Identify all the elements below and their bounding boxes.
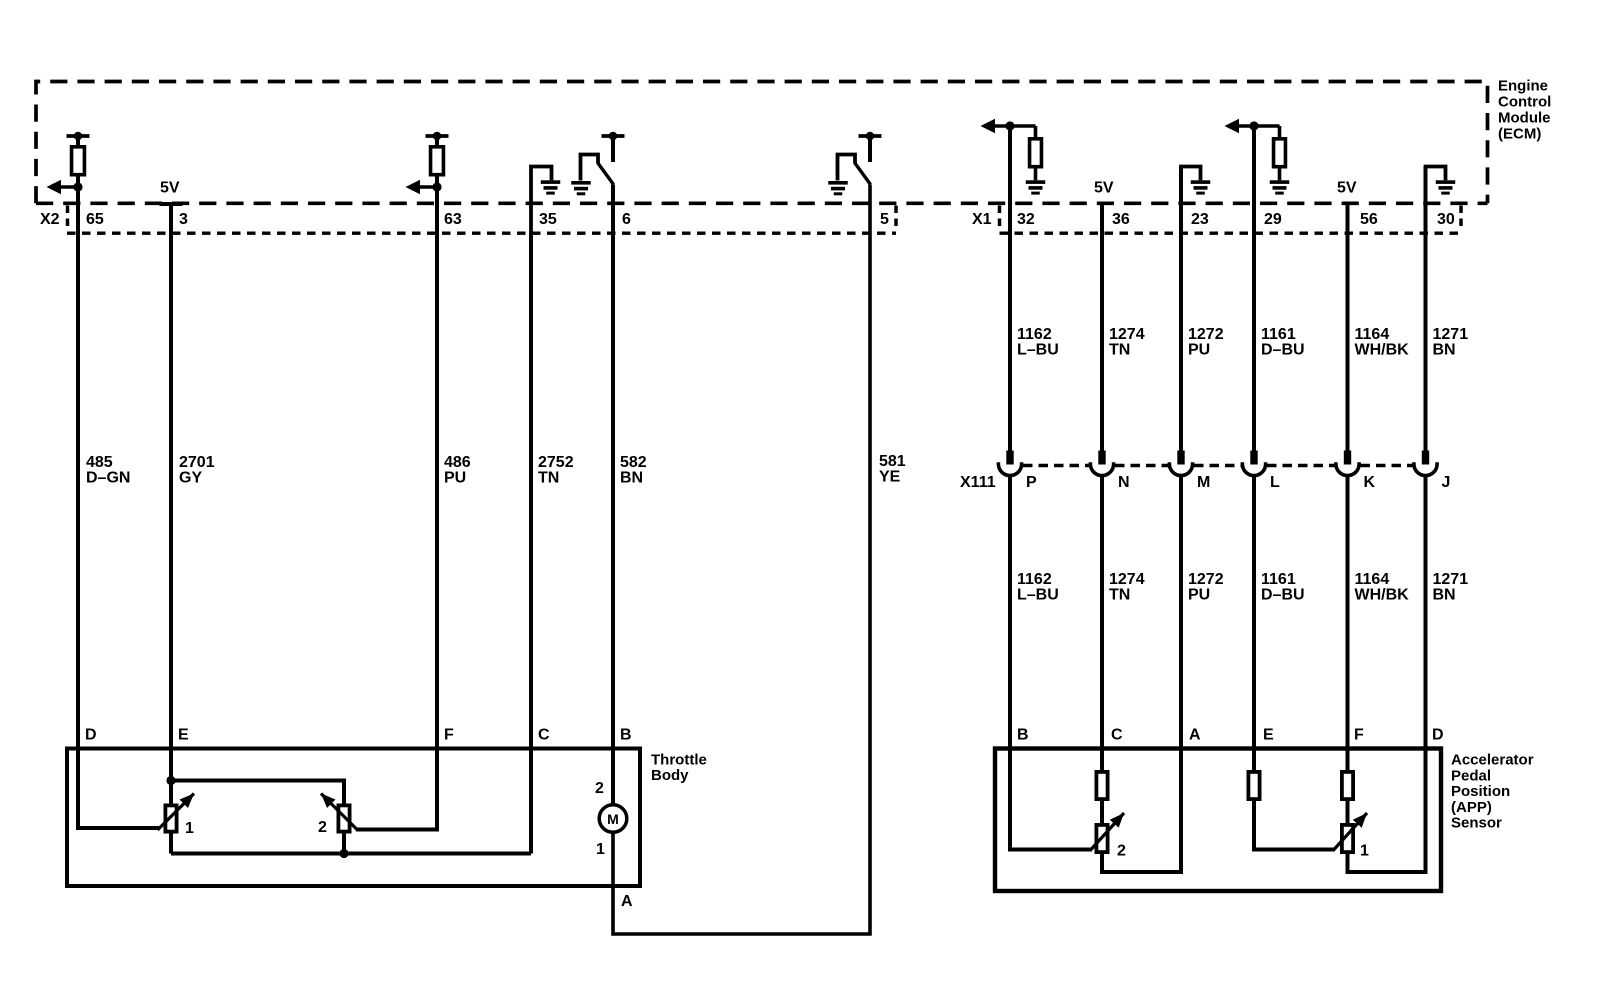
pin 3 label (X2): [179, 211, 188, 228]
pin 5 label (X2): [880, 211, 889, 228]
APP sensor box: [995, 749, 1441, 892]
wire 1274 TN : X111 to APP sensor pin C: [1100, 475, 1104, 749]
svg-text:TN: TN: [1109, 587, 1130, 604]
throttle body pin D label: [85, 727, 97, 744]
signal arrow at pin 63: [406, 180, 442, 195]
pull-up resistor to ground at pin 32: [1026, 126, 1046, 195]
svg-text:B: B: [1017, 727, 1029, 744]
wire 2701 GY : ECM pin 3 to throttle body pin E and TP sensor 1: [169, 204, 173, 854]
wire 2752 TN label: [538, 454, 574, 487]
wire 1271 BN upper label: [1433, 326, 1469, 359]
svg-text:5: 5: [880, 211, 889, 228]
pin 6 label (X2): [622, 211, 631, 228]
svg-text:D–BU: D–BU: [1261, 342, 1305, 359]
svg-text:N: N: [1118, 474, 1130, 491]
svg-text:32: 32: [1017, 211, 1035, 228]
APP sensor 1 label: [1360, 843, 1369, 860]
svg-text:1272: 1272: [1188, 571, 1224, 588]
ECM module dashed boundary: [36, 82, 1488, 204]
svg-text:GY: GY: [179, 470, 202, 487]
svg-text:E: E: [1263, 727, 1274, 744]
wire 1272 PU : ECM to connector X111: [1179, 167, 1183, 451]
APP sensor 2 (potentiometer): [1091, 813, 1124, 852]
svg-text:L–BU: L–BU: [1017, 342, 1059, 359]
switch upper terminal above pin 5: [859, 132, 882, 162]
svg-text:F: F: [1354, 727, 1364, 744]
wire 1164 WH/BK : ECM to connector X111: [1346, 202, 1350, 451]
svg-text:5V: 5V: [160, 180, 180, 197]
svg-text:X111: X111: [960, 474, 996, 491]
throttle internal branch: E to TP2 top: [166, 776, 344, 805]
pin 23 label (X1): [1191, 211, 1209, 228]
APP internal wire: E to APP1 wiper: [1254, 749, 1335, 850]
throttle body pin C label: [538, 727, 550, 744]
connector X1 dashed outline: [1000, 206, 1462, 234]
svg-text:BN: BN: [620, 470, 643, 487]
svg-text:(ECM): (ECM): [1498, 126, 1541, 143]
terminal P label: [1026, 474, 1037, 491]
wire 581 YE : ECM pin 5 to throttle body pin A: [613, 185, 870, 935]
pin 32 label (X1): [1017, 211, 1035, 228]
inline connector X111 terminal N: [1090, 451, 1113, 476]
svg-text:E: E: [178, 727, 189, 744]
svg-text:Control: Control: [1498, 94, 1551, 111]
svg-text:TN: TN: [1109, 342, 1130, 359]
ground symbol at pin 35: [531, 167, 560, 234]
svg-text:2: 2: [318, 819, 327, 836]
svg-text:X2: X2: [40, 211, 60, 228]
ground symbol at pin 30: [1426, 167, 1456, 234]
svg-text:L: L: [1270, 474, 1280, 491]
throttle motor M: [599, 805, 627, 833]
svg-text:J: J: [1442, 474, 1451, 491]
throttle body pin A label: [621, 893, 633, 910]
wire 1164 WH/BK upper label: [1355, 326, 1410, 359]
svg-text:1: 1: [185, 820, 194, 837]
svg-text:C: C: [538, 727, 550, 744]
wire 1274 TN : ECM to connector X111: [1100, 202, 1104, 451]
svg-text:F: F: [444, 727, 454, 744]
APP sensor 2 label: [1117, 843, 1126, 860]
svg-text:486: 486: [444, 454, 471, 471]
throttle internal common return to pin C: [171, 849, 531, 858]
5V label (pin 56): [1337, 180, 1357, 197]
ground symbol at pin 23: [1181, 167, 1210, 234]
svg-text:(APP): (APP): [1451, 799, 1492, 816]
svg-text:2701: 2701: [179, 454, 215, 471]
svg-text:5V: 5V: [1337, 180, 1357, 197]
wire 1164 WH/BK lower label: [1355, 571, 1410, 604]
throttle position sensor 2 (potentiometer): [321, 794, 358, 832]
svg-text:29: 29: [1264, 211, 1282, 228]
5V label (pin 3): [160, 180, 180, 197]
pull-up resistor to ground at pin 29: [1270, 126, 1290, 195]
throttle body name label: [651, 752, 707, 785]
wire 1274 TN lower label: [1109, 571, 1145, 604]
pin 30 label (X1): [1437, 211, 1455, 228]
svg-text:Accelerator: Accelerator: [1451, 752, 1534, 769]
svg-text:C: C: [1111, 727, 1123, 744]
svg-text:1161: 1161: [1261, 326, 1296, 343]
svg-text:581: 581: [879, 453, 906, 470]
svg-text:23: 23: [1191, 211, 1209, 228]
5V supply terminal at pin 3: [160, 202, 183, 206]
svg-text:1272: 1272: [1188, 326, 1224, 343]
inline connector X111 terminal J: [1414, 451, 1437, 476]
X111 connector dashed link: [1361, 464, 1413, 468]
TP sensor 2 label: [318, 819, 327, 836]
switch fixed contact and ground at pin 5: [828, 155, 855, 196]
wire 1164 WH/BK : X111 to APP sensor pin F: [1346, 475, 1350, 749]
svg-text:YE: YE: [879, 469, 901, 486]
svg-text:63: 63: [444, 211, 462, 228]
svg-text:35: 35: [539, 211, 557, 228]
pin 29 label (X1): [1264, 211, 1282, 228]
wire 486 PU label: [444, 454, 471, 487]
svg-text:1: 1: [1360, 843, 1369, 860]
signal arrow at pin 65: [47, 180, 83, 195]
connector X1 label: [972, 211, 992, 228]
APP sensor pin D label: [1432, 727, 1444, 744]
svg-text:1274: 1274: [1109, 326, 1145, 343]
APP sensor pin A label: [1189, 727, 1201, 744]
switch blade at pin 5: [855, 163, 871, 185]
inline connector X111 terminal M: [1169, 451, 1192, 476]
wire 1162 L–BU : ECM to connector X111: [1008, 126, 1012, 451]
svg-text:1: 1: [596, 841, 605, 858]
wire 1272 PU lower label: [1188, 571, 1224, 604]
svg-text:B: B: [620, 727, 632, 744]
X111 connector dashed link: [1267, 464, 1335, 468]
svg-text:D: D: [1432, 727, 1444, 744]
inline connector X111 terminal L: [1242, 451, 1265, 476]
motor pin 1 label: [596, 841, 605, 858]
APP sensor name label: [1451, 752, 1534, 832]
svg-text:1164: 1164: [1355, 326, 1390, 343]
pin 65 label (X2): [86, 211, 104, 228]
connector X2 dashed outline: [67, 206, 896, 234]
svg-text:Body: Body: [651, 767, 689, 784]
throttle body box: [67, 749, 640, 887]
svg-text:A: A: [1189, 727, 1201, 744]
wire 1271 BN lower label: [1433, 571, 1469, 604]
APP internal wire: C through resistor and APP2: [1102, 749, 1181, 873]
inline connector X111 terminal P: [998, 451, 1021, 476]
pull-up resistor at pin 63: [431, 147, 444, 175]
wire 1161 D–BU : X111 to APP sensor pin E: [1252, 475, 1256, 749]
wire 2701 GY label: [179, 454, 215, 487]
svg-text:2: 2: [595, 780, 604, 797]
svg-text:1274: 1274: [1109, 571, 1145, 588]
svg-text:WH/BK: WH/BK: [1355, 342, 1410, 359]
TP sensor 1 label: [185, 820, 194, 837]
wire 1271 BN : ECM to connector X111: [1424, 167, 1428, 451]
pull-up resistor at pin 65: [72, 147, 85, 175]
APP sensor pin C label: [1111, 727, 1123, 744]
ECM name label: Engine Control Module (ECM): [1498, 78, 1551, 143]
svg-text:3: 3: [179, 211, 188, 228]
APP internal wire: B to APP2 wiper: [1010, 749, 1092, 850]
throttle body pin E label: [178, 727, 189, 744]
5V reference terminal above pin 63: [426, 132, 449, 146]
svg-text:Pedal: Pedal: [1451, 767, 1491, 784]
svg-text:D–BU: D–BU: [1261, 587, 1305, 604]
terminal J label: [1442, 474, 1451, 491]
switch blade at pin 6: [598, 163, 614, 185]
wire 485 D-GN : ECM pin 65 to throttle body pin D: [78, 187, 159, 828]
pin 35 label (X2): [539, 211, 557, 228]
wire 1272 PU : X111 to APP sensor pin A: [1179, 475, 1183, 749]
pin 56 label (X1): [1360, 211, 1378, 228]
X111 connector dashed link: [1194, 464, 1241, 468]
svg-text:M: M: [607, 811, 619, 827]
svg-text:36: 36: [1112, 211, 1130, 228]
svg-text:65: 65: [86, 211, 104, 228]
svg-text:PU: PU: [444, 470, 466, 487]
svg-text:Sensor: Sensor: [1451, 815, 1502, 832]
wire 1274 TN upper label: [1109, 326, 1145, 359]
svg-text:D: D: [85, 727, 97, 744]
wire 1162 L–BU : X111 to APP sensor pin B: [1008, 475, 1012, 749]
APP sensor pin E label: [1263, 727, 1274, 744]
svg-text:P: P: [1026, 474, 1037, 491]
5V label (pin 36): [1094, 180, 1114, 197]
throttle body pin B label: [620, 727, 632, 744]
throttle position sensor 1 (potentiometer): [158, 794, 195, 832]
svg-text:6: 6: [622, 211, 631, 228]
svg-text:BN: BN: [1433, 587, 1456, 604]
wire 1162 L–BU upper label: [1017, 326, 1059, 359]
APP sensor C-circuit fixed resistor: [1096, 772, 1107, 799]
wire 1161 D–BU upper label: [1261, 326, 1305, 359]
signal arrow at pin 32: [981, 119, 1036, 134]
svg-text:1162: 1162: [1017, 571, 1052, 588]
svg-text:X1: X1: [972, 211, 992, 228]
svg-text:TN: TN: [538, 470, 559, 487]
svg-text:K: K: [1364, 474, 1376, 491]
wire 486 PU : ECM pin 63 to throttle body pin F: [356, 187, 437, 830]
svg-text:Throttle: Throttle: [651, 752, 707, 769]
APP sensor E-circuit fixed resistor: [1248, 772, 1259, 799]
wire 1161 D–BU lower label: [1261, 571, 1305, 604]
switch upper terminal above pin 6: [602, 132, 625, 162]
wire 581 YE label: [879, 453, 906, 486]
wire 485 D-GN label: [86, 454, 130, 487]
svg-text:582: 582: [620, 454, 647, 471]
svg-text:5V: 5V: [1094, 180, 1114, 197]
5V reference terminal above pin 65: [67, 132, 90, 146]
APP sensor 1 (potentiometer): [1334, 813, 1367, 852]
svg-text:Engine: Engine: [1498, 78, 1548, 95]
svg-text:2752: 2752: [538, 454, 574, 471]
svg-text:L–BU: L–BU: [1017, 587, 1059, 604]
throttle body pin F label: [444, 727, 454, 744]
svg-text:PU: PU: [1188, 587, 1210, 604]
APP sensor pin F label: [1354, 727, 1364, 744]
svg-text:1164: 1164: [1355, 571, 1390, 588]
wire pin 65 internal stub: [76, 146, 80, 233]
signal arrow at pin 29: [1225, 119, 1280, 134]
terminal K label: [1364, 474, 1376, 491]
wire 2752 TN : ECM pin 35 to throttle body pin C: [529, 233, 533, 854]
svg-text:1271: 1271: [1433, 326, 1469, 343]
svg-text:Module: Module: [1498, 110, 1551, 127]
terminal N label: [1118, 474, 1130, 491]
svg-text:Position: Position: [1451, 783, 1510, 800]
wire 582 BN label: [620, 454, 647, 487]
switch fixed contact and ground at pin 6: [571, 155, 598, 196]
wire 1271 BN : X111 to APP sensor pin D: [1424, 475, 1428, 749]
pin 36 label (X1): [1112, 211, 1130, 228]
pin 63 label (X2): [444, 211, 462, 228]
svg-text:56: 56: [1360, 211, 1378, 228]
APP sensor pin B label: [1017, 727, 1029, 744]
svg-text:1161: 1161: [1261, 571, 1296, 588]
wire 1161 D–BU : ECM to connector X111: [1252, 126, 1256, 451]
wire pin 63 internal stub: [435, 146, 439, 233]
X111 connector dashed link: [1115, 464, 1168, 468]
svg-text:BN: BN: [1433, 342, 1456, 359]
wire 1272 PU upper label: [1188, 326, 1224, 359]
svg-text:1162: 1162: [1017, 326, 1052, 343]
svg-text:1271: 1271: [1433, 571, 1469, 588]
svg-text:A: A: [621, 893, 633, 910]
inline connector X111 terminal K: [1336, 451, 1359, 476]
throttle internal wire: TP2 body down to common: [342, 805, 346, 854]
motor pin 2 label: [595, 780, 604, 797]
connector X2 label: [40, 211, 60, 228]
wire 1162 L–BU lower label: [1017, 571, 1059, 604]
terminal L label: [1270, 474, 1280, 491]
terminal M label: [1197, 474, 1210, 491]
X111 connector dashed link: [1023, 464, 1089, 468]
APP sensor F-circuit fixed resistor: [1342, 772, 1353, 799]
APP internal wire: F through resistor and APP1 to D: [1348, 749, 1426, 873]
svg-text:485: 485: [86, 454, 113, 471]
svg-text:30: 30: [1437, 211, 1455, 228]
connector X111 label: [960, 474, 996, 491]
svg-text:WH/BK: WH/BK: [1355, 587, 1410, 604]
wire 582 BN : ECM pin 6 to throttle body pin B (motor): [611, 185, 615, 804]
svg-text:M: M: [1197, 474, 1210, 491]
svg-text:PU: PU: [1188, 342, 1210, 359]
svg-text:D–GN: D–GN: [86, 470, 130, 487]
svg-text:2: 2: [1117, 843, 1126, 860]
